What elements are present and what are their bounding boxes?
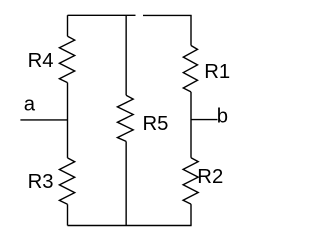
svg-text:R3: R3 — [28, 171, 54, 193]
svg-text:R1: R1 — [204, 61, 230, 83]
svg-text:R4: R4 — [28, 50, 54, 72]
svg-text:R2: R2 — [197, 166, 223, 188]
svg-text:a: a — [24, 93, 36, 115]
svg-text:R5: R5 — [143, 113, 169, 135]
svg-text:b: b — [217, 105, 228, 127]
